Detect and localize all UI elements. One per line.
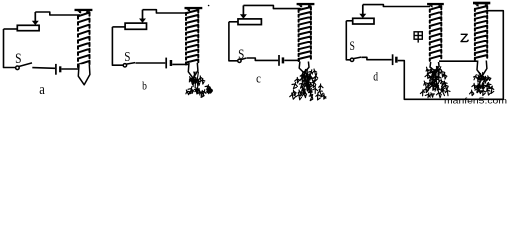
circuit d — [346, 2, 503, 100]
wire: battery d down to bottom, right side loop to electromagnet yi — [398, 11, 504, 100]
iron filings attracted by yi — [470, 73, 494, 96]
electromagnet c: screw head — [297, 3, 315, 5]
rheostat c with slider — [238, 19, 261, 25]
iron filings attracted by jia (large pile) — [420, 67, 450, 98]
circuit b — [112, 5, 212, 98]
paper speck — [208, 5, 210, 7]
electromagnet jia: screw head — [427, 3, 444, 5]
wire: left side c — [229, 22, 238, 61]
rheostat a with slider — [17, 25, 39, 30]
svg-text:a: a — [39, 82, 45, 98]
switch S a — [16, 66, 20, 70]
electromagnet c: screw tip — [299, 62, 309, 73]
electromagnet yi: coil — [475, 6, 487, 60]
electromagnet a: screw head — [75, 9, 93, 11]
wire: slider d to electromagnet jia top — [363, 5, 430, 7]
wire: left side b — [112, 27, 123, 65]
iron filings attracted by c (large pile) — [290, 69, 326, 101]
wire: slider a to electromagnet a top — [35, 12, 80, 15]
svg-text:b: b — [142, 79, 147, 93]
electromagnet yi: screw head — [473, 2, 490, 5]
svg-text:manfen5.com: manfen5.com — [444, 97, 507, 105]
circuit a — [4, 9, 93, 98]
label jia (Chinese) — [414, 32, 422, 43]
svg-text:c: c — [256, 71, 261, 86]
rheostat d with slider — [353, 18, 374, 24]
wire: left side a — [4, 29, 16, 68]
electromagnet yi: screw tip — [477, 61, 487, 77]
wire: left side d — [346, 21, 350, 60]
wire: switch a to battery a — [32, 67, 55, 70]
electromagnet b: screw head — [185, 7, 203, 9]
electromagnet b: screw tip — [188, 63, 198, 79]
wire: slider c to electromagnet c top — [243, 5, 301, 8]
wire: switch b to battery b — [135, 62, 165, 64]
svg-text:S: S — [15, 51, 21, 67]
wire: slider b to electromagnet b top — [143, 10, 189, 13]
switch S c — [238, 59, 241, 62]
wire: switch d jog to battery d — [361, 57, 391, 59]
wire: battery c to screw c — [284, 59, 300, 61]
electromagnet b: coil (many turns) — [186, 10, 198, 65]
svg-text:S: S — [350, 38, 355, 53]
label yi (Chinese) — [461, 34, 469, 41]
electromagnet jia: coil — [430, 6, 442, 61]
electromagnet a: coil (wide turns) — [78, 13, 90, 68]
stray pins right of pile b — [205, 85, 212, 94]
wire: battery a to screw a — [62, 68, 79, 70]
battery d — [392, 54, 394, 65]
switch S b — [123, 64, 126, 67]
switch S d — [350, 58, 353, 61]
electromagnet jia: screw tip — [430, 62, 439, 71]
wire: jia bottom to yi bottom (series link) — [439, 60, 477, 62]
circuit c — [229, 3, 326, 101]
battery a — [55, 64, 57, 75]
svg-text:d: d — [373, 69, 378, 84]
iron filings attracted by b — [186, 72, 206, 97]
battery c — [278, 55, 280, 66]
electromagnet c: coil — [299, 7, 311, 61]
wire: switch c jog to battery c — [247, 58, 278, 60]
svg-text:S: S — [124, 50, 130, 65]
rheostat b with slider — [125, 23, 146, 29]
battery b — [165, 58, 167, 69]
electromagnet a: screw tip — [78, 64, 90, 85]
wire: battery b to screw b — [172, 63, 189, 65]
svg-text:S: S — [238, 47, 244, 62]
